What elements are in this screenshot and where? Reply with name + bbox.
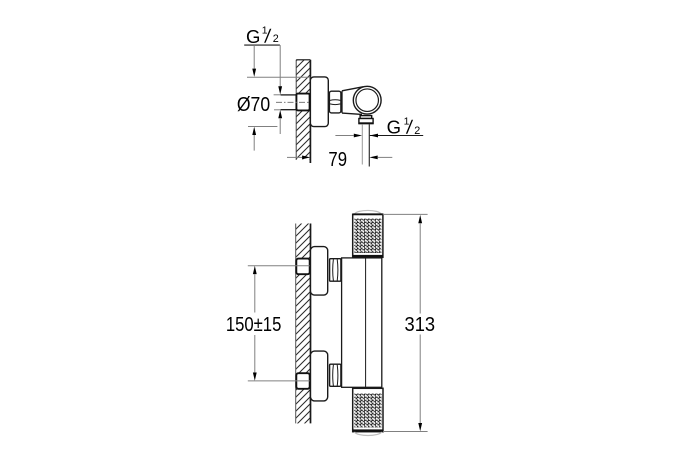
body tube circle outer (top view) xyxy=(353,86,381,114)
dimension 150+-15 xyxy=(226,266,282,381)
wall (top view, hatched) xyxy=(296,60,310,163)
dimension 79 xyxy=(287,149,392,171)
svg-text:G: G xyxy=(246,26,260,47)
extension line inlet bottom xyxy=(248,380,310,382)
supply stub pipe (left of wall) xyxy=(281,95,297,110)
escutcheon rosette (top view) xyxy=(310,77,328,127)
concealed fitting box in wall (top view) xyxy=(296,94,309,111)
extension line inlet top xyxy=(248,265,310,267)
escutcheon top (bottom view) xyxy=(311,247,328,296)
extension line stub bottom xyxy=(274,109,281,111)
knurled cap bottom xyxy=(353,388,383,435)
union nut (top view) xyxy=(329,91,341,113)
knurled cap top xyxy=(353,210,383,257)
label G 1/2 (top left) xyxy=(244,25,280,47)
mixer body (bottom view) xyxy=(342,258,382,387)
escutcheon bottom (bottom view) xyxy=(311,351,328,401)
extension line rosette top xyxy=(247,76,310,78)
valve body cone (top view) xyxy=(342,87,367,115)
label G 1/2 (outlet, right) xyxy=(370,116,424,138)
svg-text:150±15: 150±15 xyxy=(226,314,282,336)
svg-text:Ø70: Ø70 xyxy=(237,94,270,116)
union nut bottom (bottom view) xyxy=(330,364,341,386)
dimension line G1/2 top (stub) xyxy=(278,45,282,134)
union nut top (bottom view) xyxy=(330,259,341,282)
concealed fitting top (bottom view) xyxy=(296,259,309,275)
extension line 313 bottom xyxy=(383,431,428,433)
wall (bottom view, hatched) xyxy=(296,224,311,424)
svg-text:G: G xyxy=(387,117,401,138)
dimension line O70 xyxy=(252,45,256,151)
svg-text:79: 79 xyxy=(328,149,347,171)
extension line 313 top xyxy=(383,213,428,215)
extension line rosette bottom xyxy=(248,126,277,128)
outlet pipe xyxy=(362,124,369,166)
svg-text:2: 2 xyxy=(273,33,279,45)
shower outlet flange xyxy=(359,116,373,124)
body tube circle inner xyxy=(356,89,379,112)
dimension 313 xyxy=(405,215,436,431)
dimension arrows G1/2 outlet xyxy=(335,134,378,138)
extension line stub top xyxy=(274,94,281,96)
svg-text:313: 313 xyxy=(405,313,436,336)
concealed fitting bottom (bottom view) xyxy=(296,373,309,389)
centreline through stub (dash-dot) xyxy=(276,101,310,103)
